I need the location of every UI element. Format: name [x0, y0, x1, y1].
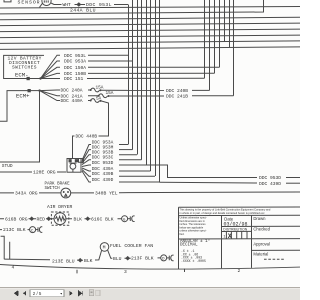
fan wire DDC 953A [41, 61, 61, 79]
fan wire DDC 150B [41, 73, 61, 78]
wire bus8 [0, 47, 300, 50]
wire DDC 240B label to riser w2 [192, 89, 210, 91]
splice diamond 213F [126, 257, 129, 260]
svg-text:DDC 439D: DDC 439D [92, 177, 114, 183]
wire DDC 953D to jog [119, 165, 257, 178]
splice arrow into dryer [47, 217, 50, 220]
riser w4 DDC 150A [219, 0, 221, 67]
svg-text:DECIMAL: DECIMAL [180, 243, 198, 247]
svg-text:DDC 953D: DDC 953D [259, 175, 281, 181]
viewer toolbar [0, 287, 300, 300]
riser v7 [155, 0, 157, 176]
svg-text:DDC 439A: DDC 439A [92, 166, 114, 172]
wire DDC 439A to riser v6 [119, 170, 151, 172]
wire fan motor to BLU [108, 250, 126, 258]
wire to connector G [89, 218, 121, 220]
riser v4 [141, 0, 143, 160]
park brake switch circle [61, 188, 71, 198]
wire pin to junction ECM- [29, 78, 40, 80]
splice diamond top [77, 3, 81, 6]
svg-text:PARK BRAKE: PARK BRAKE [45, 182, 71, 186]
toolbar next-view icon [96, 290, 100, 295]
connector G circle [122, 216, 128, 222]
riser v6 [150, 0, 152, 171]
relay pin B [75, 160, 77, 162]
riser v8 [159, 0, 161, 182]
svg-text:Approval: Approval [253, 241, 270, 246]
fan wire DDC 240A [40, 89, 60, 92]
wire diamond to DDC 953L label [81, 4, 85, 6]
wire pin to junction ECM+ [30, 90, 39, 92]
fan wire DDC 440A [40, 91, 60, 101]
note box outline [179, 207, 301, 269]
wire DDC 150A label to riser w4 [88, 66, 220, 68]
svg-text:DDC 953C: DDC 953C [92, 155, 114, 161]
svg-text:616B ORG: 616B ORG [5, 216, 28, 222]
wire fuse F1 to DDC 240B label [102, 89, 164, 91]
fuse F3 5A [88, 99, 101, 103]
svg-text:2 / 5: 2 / 5 [33, 291, 42, 296]
svg-text:3: 3 [124, 269, 127, 275]
riser v1 DDC 953L/953A [128, 5, 130, 145]
fan wire DDC 439B [82, 170, 91, 177]
svg-text:FUEL COOLER FAN: FUEL COOLER FAN [110, 243, 153, 249]
splice diamond 616B [30, 217, 33, 220]
wire DDC 150B label to riser w3 [88, 72, 215, 74]
toolbar last-page button [79, 291, 83, 296]
svg-text:DDC 150B: DDC 150B [64, 71, 86, 77]
toolbar prev-view icon [89, 290, 94, 296]
drawing border bottom [0, 265, 300, 269]
svg-text:DDC 440B: DDC 440B [76, 134, 98, 140]
wire DDC 151 to riser w1 [41, 77, 205, 79]
wire connector G to plug [128, 218, 131, 220]
svg-text:in whole or in part, of design: in whole or in part, of design and detai… [180, 211, 266, 215]
wire DDC 439B to riser v7 [119, 175, 155, 177]
relay module box [67, 159, 81, 173]
svg-text:.XXXX ± .0005: .XXXX ± .0005 [181, 259, 206, 263]
title block horizontals [178, 226, 300, 250]
fan wire DDC 439A [82, 168, 91, 171]
combo dropdown arrow [60, 293, 63, 295]
wire bus1 [0, 7, 300, 9]
svg-text:2: 2 [238, 268, 241, 274]
svg-text:M: M [103, 245, 106, 251]
svg-text:1: 1 [223, 235, 225, 239]
box corner top-left [4, 0, 11, 2]
border zone tick 1 [77, 269, 185, 274]
svg-text:DDC 150A: DDC 150A [64, 65, 86, 71]
svg-text:DDC 439D: DDC 439D [259, 181, 281, 187]
svg-text:ECM+: ECM+ [16, 92, 30, 99]
svg-text:343A ORG: 343A ORG [15, 190, 38, 196]
air dryer heater element [55, 216, 64, 221]
wire connector D to plug [167, 257, 170, 259]
splice diamond 616C [86, 217, 89, 220]
fan wire DDC 953C [82, 160, 91, 165]
fan wire DDC 150A [41, 67, 61, 78]
fan wire DDC 953M [82, 150, 91, 162]
fan wire DDC 241A [40, 91, 60, 96]
wire bus3 [0, 17, 300, 20]
plug symbol 213F [169, 255, 173, 261]
svg-text:BLK: BLK [84, 258, 93, 264]
relay pin A [69, 160, 71, 162]
wire fuse F3 down to DDC 440B [73, 101, 109, 159]
riser w6 [229, 0, 231, 48]
svg-text:SENSOR: SENSOR [18, 0, 41, 5]
plug symbol dryer [130, 216, 134, 222]
wire DDC 953M to riser v2 [119, 149, 133, 151]
svg-text:RED: RED [37, 216, 46, 222]
riser w3 DDC 150B [214, 0, 216, 73]
svg-text:DDC 953L: DDC 953L [86, 2, 112, 8]
wire connector C to plug [36, 229, 38, 231]
fan wire DDC 953B [82, 155, 91, 164]
wire DDC 953L to riser v1 [114, 4, 128, 6]
svg-text:ECM-: ECM- [15, 72, 28, 79]
svg-text:5A: 5A [96, 97, 102, 102]
svg-text:DDC 953L: DDC 953L [64, 53, 86, 59]
svg-text:WHT: WHT [63, 2, 72, 8]
svg-text:DDC 439B: DDC 439B [92, 171, 114, 177]
svg-text:BLU: BLU [113, 256, 122, 262]
svg-text:Checked: Checked [253, 227, 270, 232]
wire BLK to fan motor [82, 250, 102, 260]
svg-text:03/02/98: 03/02/98 [224, 221, 248, 227]
wire 213C BLK [0, 229, 30, 231]
fan wire DDC 953A mid [82, 145, 91, 161]
svg-text:DDC 151: DDC 151 [64, 76, 84, 82]
svg-text:DDC 240B: DDC 240B [166, 88, 188, 94]
svg-text:15A: 15A [96, 86, 104, 91]
wire DDC 241B label to riser w7 [192, 95, 234, 97]
wire WHT sensor to diamond [51, 3, 77, 5]
wire dryer to BLK [50, 218, 86, 220]
wire 340B YEL [71, 191, 300, 194]
riser w7 DDC 241B [233, 0, 235, 96]
svg-text:120E ORG: 120E ORG [33, 170, 56, 176]
fan wire DDC 953L [41, 55, 61, 78]
wire RED to dryer [33, 218, 47, 220]
connector C circle [30, 227, 36, 233]
wire bus2 244A BLU [0, 0, 264, 14]
fuse F2 terminal dots [98, 95, 100, 97]
junction ECM+ [38, 89, 40, 91]
svg-text:Material: Material [253, 251, 268, 256]
park brake switch contacts [63, 191, 65, 193]
wire ECM+ to STUD [0, 91, 40, 162]
wire DDC 953A mid to riser v1 [119, 144, 128, 146]
wire DDC 953L label to riser v1 [88, 54, 128, 56]
connector D circle [161, 255, 167, 261]
svg-text:DDC 953A: DDC 953A [92, 139, 114, 145]
fuse F2 15A [88, 94, 109, 98]
park brake switch contact 2 [67, 191, 69, 193]
riser v3 [137, 0, 139, 155]
svg-text:BLK: BLK [74, 216, 83, 222]
svg-text:DDC 953D: DDC 953D [92, 160, 114, 166]
riser w1 DDC 151 [204, 0, 206, 78]
svg-text:15A: 15A [106, 91, 114, 96]
wire DDC 953D right to edge [286, 177, 300, 179]
plug symbol 213C [38, 227, 42, 233]
riser w2 DDC 240B [209, 0, 211, 90]
wire DDC 953A label to riser v2 [88, 60, 133, 62]
svg-text:213E BLU: 213E BLU [52, 258, 75, 264]
wire DDC 439D right to edge [286, 182, 300, 184]
fan wire DDC 439D [82, 171, 91, 182]
wire bus4 [0, 23, 300, 26]
wire bus7 [0, 41, 300, 44]
relay coil circle [70, 163, 76, 169]
svg-text:340B YEL: 340B YEL [95, 190, 118, 196]
air dryer heater circle [54, 213, 66, 225]
svg-text:616C BLK: 616C BLK [91, 216, 114, 222]
junction block lower-left [1, 236, 10, 259]
relay notch [70, 159, 84, 173]
fan motor M circle [100, 243, 109, 252]
distribution row dividers [226, 231, 247, 239]
svg-text:fied.: fied. [180, 232, 185, 236]
riser v5 [146, 0, 148, 165]
svg-text:DDC 953A: DDC 953A [64, 59, 86, 65]
park brake switch actuator [65, 194, 67, 196]
fan wire DDC 953D [82, 165, 91, 167]
svg-text:213F BLK: 213F BLK [131, 256, 154, 262]
fuse F1 terminal dots [90, 89, 92, 91]
svg-text:DDC 440A: DDC 440A [61, 98, 83, 104]
svg-text:DDC 240A: DDC 240A [61, 88, 83, 94]
wire bus5 [0, 29, 300, 32]
junction ECM- [39, 77, 41, 79]
svg-text:DDC 953B: DDC 953B [92, 150, 114, 156]
svg-text:213C BLK: 213C BLK [3, 227, 26, 233]
toolbar first-page button [14, 291, 18, 296]
svg-text:Drawn: Drawn [253, 216, 266, 221]
wire 616B ORG [0, 218, 30, 220]
svg-text:DDC 241B: DDC 241B [166, 94, 188, 100]
wire DDC 439D across to label right [119, 182, 257, 183]
pin ECM- [27, 77, 29, 79]
wire 343A ORG [0, 192, 61, 194]
wire to 213F BLK label [129, 257, 160, 259]
toolbar page combo box [30, 290, 64, 297]
toolbar next-page button [70, 291, 73, 296]
riser w5 [224, 0, 226, 42]
wire 213E BLU [4, 259, 78, 260]
wire DDC 953C to riser v4 [119, 159, 142, 161]
svg-text:SWITCHES: SWITCHES [12, 65, 37, 71]
wire bus6 [0, 35, 300, 38]
svg-text:DISTRIBUTION: DISTRIBUTION [223, 228, 247, 232]
fuse F1 15A [88, 88, 101, 92]
pin ECM+ [28, 90, 30, 92]
splice diamond 213E [79, 259, 82, 262]
sensor circle [42, 0, 51, 6]
svg-text:4: 4 [12, 265, 15, 271]
battery disconnect box [4, 55, 44, 78]
svg-text:244A BLU: 244A BLU [70, 8, 96, 14]
svg-text:AIR DRYER: AIR DRYER [47, 204, 73, 210]
riser v2 [132, 0, 134, 150]
svg-text:STUD: STUD [2, 163, 13, 169]
title block verticals [222, 215, 252, 268]
sensor lead diagonal [40, 3, 43, 7]
material dashed line [264, 258, 285, 260]
wire 120E ORG [0, 171, 66, 173]
svg-text:SWITCH: SWITCH [45, 187, 61, 191]
wire fuse F2 to DDC 241B label [110, 95, 164, 97]
ECM+ box [0, 91, 28, 122]
air dryer dashed housing [51, 212, 68, 225]
svg-text:DDC 953M: DDC 953M [92, 145, 114, 151]
toolbar prev-page button [23, 291, 26, 296]
wire DDC 953B to riser v3 [119, 154, 137, 156]
fuse F3 terminal dots [90, 100, 92, 102]
